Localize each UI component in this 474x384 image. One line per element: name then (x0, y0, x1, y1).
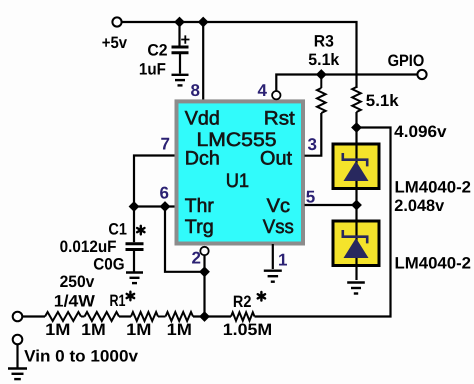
node junction Thr branch to Trg (160, 201, 171, 212)
svg-text:250v: 250v (60, 273, 96, 291)
svg-text:GPIO: GPIO (388, 52, 425, 70)
svg-text:2: 2 (192, 249, 201, 268)
wire C1 bottom (133, 250, 135, 272)
zener diode D2 box (333, 221, 379, 266)
label R2 asterisk (258, 292, 265, 301)
svg-text:1M: 1M (167, 321, 192, 339)
wire Thr-Trg link (165, 207, 205, 272)
wire Trg down to divider tap (203, 255, 205, 316)
node junction Trg / Thr-link (199, 266, 210, 277)
svg-text:1uF: 1uF (139, 60, 166, 78)
resistor R1 section c (131, 312, 158, 321)
svg-text:C2: C2 (147, 42, 167, 60)
terminal Vin return (13, 335, 23, 345)
svg-text:R3: R3 (314, 33, 334, 51)
wire pin8 Vdd branch (202, 22, 204, 100)
svg-text:+: + (181, 31, 191, 49)
svg-text:Out: Out (260, 148, 293, 170)
wire C2 to ground (179, 53, 181, 74)
wire top +5v rail (122, 22, 357, 88)
svg-text:1.05M: 1.05M (223, 321, 272, 339)
node junction R3 top (316, 69, 327, 80)
resistor 5.1k divider top (352, 87, 361, 112)
wire pin1 Vss (272, 244, 274, 269)
label C1 asterisk (137, 226, 144, 235)
node junction Vc / divider mid (351, 200, 362, 211)
node junction Vdd / top rail (198, 17, 209, 28)
wire pin5 Vc (305, 204, 357, 206)
wire pin6 Thr (135, 205, 175, 207)
node junction R1/R2/Trg (199, 311, 210, 322)
svg-text:Vin 0 to 1000v: Vin 0 to 1000v (24, 348, 139, 366)
node junction Thr/Dch/C1 (129, 201, 140, 212)
svg-text:1M: 1M (45, 321, 70, 339)
svg-text:C0G: C0G (93, 256, 124, 274)
zener D1 symbol (342, 153, 369, 181)
ground Vin (8, 367, 27, 369)
svg-text:1/4W: 1/4W (54, 293, 96, 311)
svg-text:7: 7 (161, 135, 170, 154)
capacitor C2 (172, 46, 189, 49)
svg-text:5.1k: 5.1k (308, 51, 340, 69)
node junction C2 / top rail (174, 17, 185, 28)
ground C1 (126, 271, 143, 273)
ground below D2 (347, 281, 365, 283)
svg-text:1: 1 (278, 251, 287, 270)
wire through D1 (355, 142, 357, 219)
zener diode D1 box (333, 144, 379, 189)
resistor R1 section a (45, 312, 81, 321)
svg-text:LM4040-2: LM4040-2 (395, 178, 472, 196)
IC U1 LMC555 box (177, 101, 304, 243)
wire Vin return to ground (16, 344, 18, 368)
wire C1 top (133, 207, 135, 243)
svg-text:1M: 1M (81, 321, 106, 339)
svg-text:6: 6 (160, 184, 169, 203)
ground C2 (172, 74, 189, 76)
wire pin4 up to GPIO line (276, 75, 417, 91)
svg-text:Trg: Trg (185, 216, 214, 238)
svg-text:0.012uF: 0.012uF (60, 238, 117, 256)
terminal GPIO (417, 70, 426, 79)
ground Vss (264, 270, 282, 272)
svg-text:U1: U1 (226, 170, 249, 192)
svg-text:4.096v: 4.096v (394, 123, 447, 141)
resistor R3 (320, 75, 322, 89)
resistor R2 (231, 312, 255, 320)
capacitor C1 (126, 242, 144, 245)
svg-text:Rst: Rst (264, 107, 296, 129)
pin 4 circle (Rst active low) (272, 91, 280, 99)
svg-text:Thr: Thr (185, 195, 215, 217)
terminal +5v (112, 17, 121, 26)
label R1 asterisk (127, 292, 134, 301)
svg-text:2.048v: 2.048v (394, 197, 445, 215)
svg-text:Dch: Dch (185, 148, 220, 170)
resistor R1 section b (85, 312, 120, 321)
wire (158, 316, 166, 318)
wire (193, 315, 231, 317)
wire (119, 315, 131, 317)
svg-text:LM4040-2: LM4040-2 (395, 254, 472, 272)
wire pin7 Dch (134, 156, 175, 207)
svg-text:R2: R2 (233, 293, 252, 311)
zener D2 symbol (342, 230, 369, 258)
svg-text:Vdd: Vdd (185, 107, 220, 129)
pin 2 circle (Trg active low) (200, 247, 208, 255)
wire R3 bottom to pin3 Out (305, 113, 322, 156)
terminal Vin hot (13, 312, 23, 322)
svg-text:R1: R1 (110, 292, 126, 310)
wire 4.096v node to R2 (right, down, left) (255, 128, 391, 317)
wire C2 branch (178, 22, 180, 46)
svg-text:1M: 1M (126, 321, 151, 339)
node 4.096v junction (351, 122, 362, 133)
svg-text:3: 3 (308, 135, 317, 154)
svg-text:5.1k: 5.1k (366, 92, 400, 110)
svg-text:+5v: +5v (102, 34, 128, 52)
svg-text:C1: C1 (108, 221, 127, 239)
svg-text:5: 5 (306, 188, 315, 207)
svg-text:Vc: Vc (267, 195, 291, 217)
wire (81, 316, 85, 318)
wire through D2 (355, 219, 357, 280)
svg-text:8: 8 (191, 81, 200, 100)
wire Vin to R1 (23, 315, 46, 317)
svg-text:Vss: Vss (263, 216, 294, 238)
svg-text:4: 4 (258, 81, 268, 100)
resistor R1 section d (166, 312, 194, 321)
